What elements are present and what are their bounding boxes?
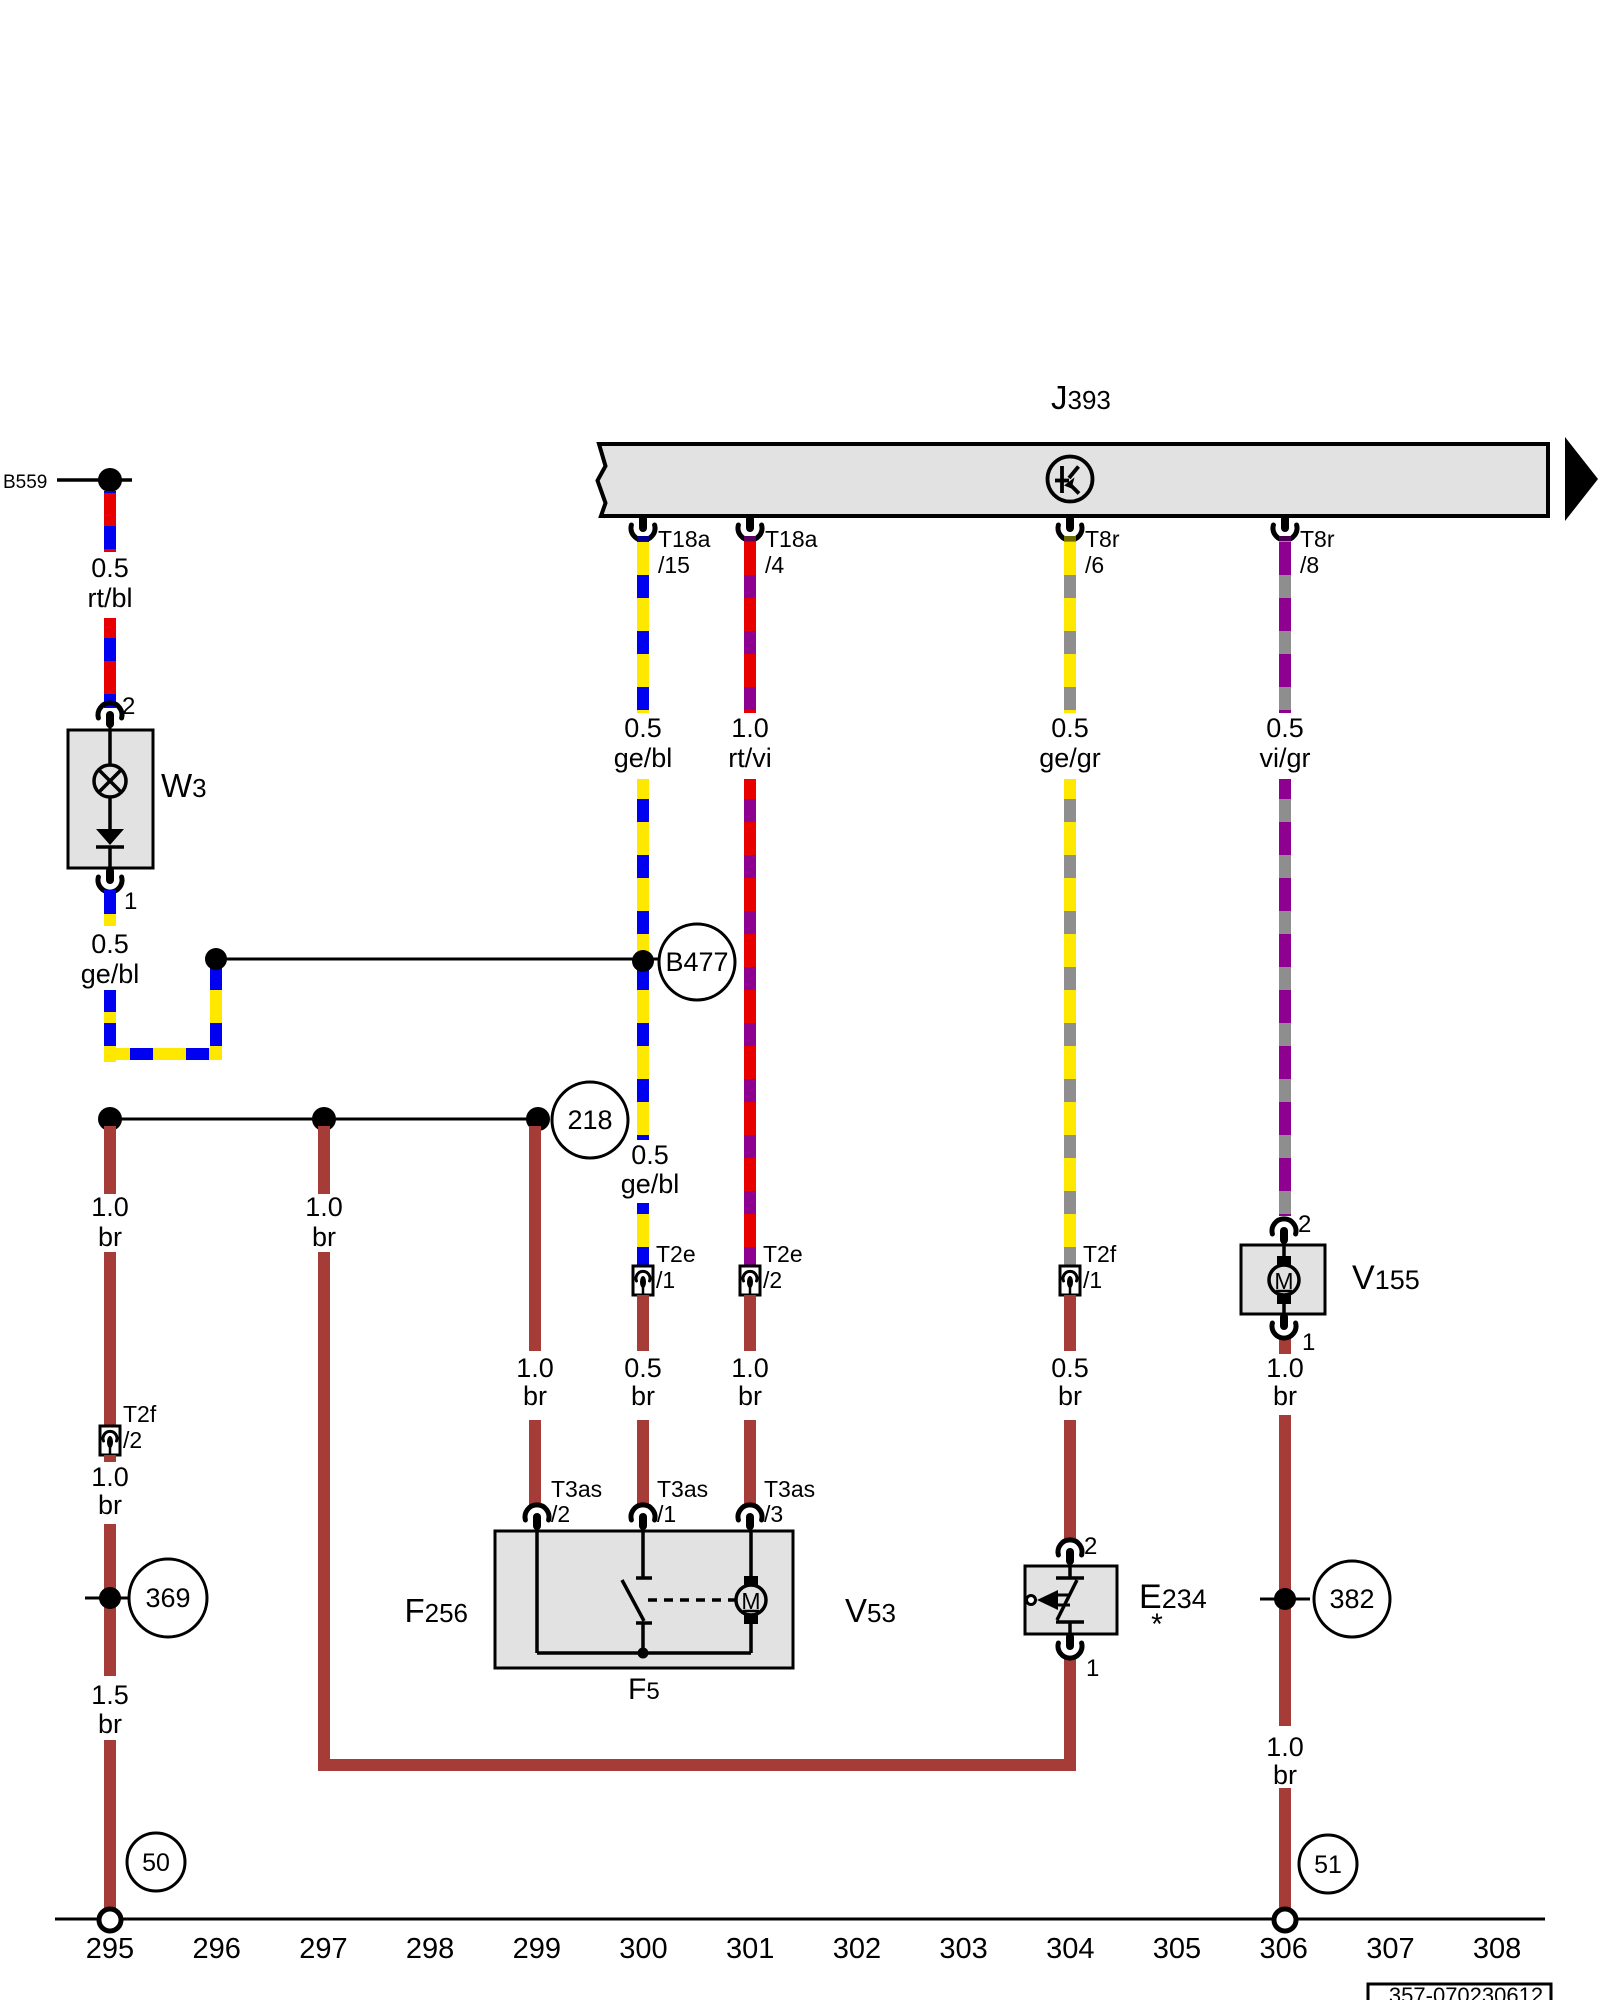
- svg-text:382: 382: [1329, 1584, 1374, 1614]
- svg-text:51: 51: [1314, 1851, 1342, 1879]
- svg-text:298: 298: [406, 1933, 454, 1965]
- svg-text:/2: /2: [763, 1267, 782, 1293]
- svg-text:br: br: [98, 1490, 122, 1520]
- svg-text:357-070230612: 357-070230612: [1389, 1983, 1543, 2000]
- svg-text:1: 1: [1302, 1329, 1315, 1356]
- svg-text:*: *: [1151, 1608, 1163, 1641]
- svg-text:F256: F256: [404, 1592, 468, 1629]
- svg-text:303: 303: [939, 1933, 987, 1965]
- svg-text:br: br: [312, 1222, 336, 1252]
- svg-text:302: 302: [833, 1933, 881, 1965]
- svg-text:br: br: [631, 1381, 655, 1411]
- svg-text:ge/bl: ge/bl: [621, 1169, 680, 1199]
- svg-text:218: 218: [567, 1105, 612, 1135]
- svg-text:T2f: T2f: [123, 1401, 157, 1427]
- svg-text:J393: J393: [1051, 379, 1111, 416]
- svg-text:1.0: 1.0: [516, 1353, 554, 1383]
- svg-text:T8r: T8r: [1085, 526, 1120, 552]
- svg-text:F5: F5: [628, 1673, 660, 1706]
- svg-text:306: 306: [1260, 1933, 1308, 1965]
- svg-text:br: br: [98, 1222, 122, 1252]
- svg-text:1.0: 1.0: [305, 1192, 343, 1222]
- svg-text:0.5: 0.5: [1051, 713, 1089, 743]
- svg-text:T3as: T3as: [764, 1476, 815, 1502]
- svg-text:vi/gr: vi/gr: [1259, 743, 1310, 773]
- svg-text:300: 300: [619, 1933, 667, 1965]
- svg-text:E234: E234: [1139, 1578, 1207, 1616]
- svg-text:br: br: [98, 1709, 122, 1739]
- svg-text:0.5: 0.5: [1266, 713, 1304, 743]
- svg-text:B559: B559: [3, 472, 47, 493]
- svg-text:rt/bl: rt/bl: [87, 583, 132, 613]
- svg-text:1.0: 1.0: [91, 1462, 129, 1492]
- svg-text:T18a: T18a: [658, 526, 711, 552]
- svg-text:1.0: 1.0: [731, 713, 769, 743]
- svg-text:0.5: 0.5: [624, 1353, 662, 1383]
- svg-text:ge/bl: ge/bl: [81, 959, 140, 989]
- svg-text:br: br: [1273, 1381, 1297, 1411]
- svg-text:299: 299: [513, 1933, 561, 1965]
- svg-text:369: 369: [145, 1583, 190, 1613]
- svg-text:/4: /4: [765, 552, 784, 578]
- svg-text:0.5: 0.5: [91, 929, 129, 959]
- svg-text:301: 301: [726, 1933, 774, 1965]
- svg-text:50: 50: [142, 1849, 170, 1877]
- svg-text:V53: V53: [845, 1592, 896, 1629]
- svg-text:304: 304: [1046, 1933, 1094, 1965]
- svg-text:T18a: T18a: [765, 526, 818, 552]
- svg-text:ge/gr: ge/gr: [1039, 743, 1101, 773]
- svg-text:ge/bl: ge/bl: [614, 743, 673, 773]
- svg-text:0.5: 0.5: [91, 553, 129, 583]
- svg-text:0.5: 0.5: [1051, 1353, 1089, 1383]
- svg-text:br: br: [1058, 1381, 1082, 1411]
- svg-text:br: br: [1273, 1760, 1297, 1790]
- svg-text:V155: V155: [1352, 1259, 1420, 1297]
- svg-text:/2: /2: [123, 1427, 142, 1453]
- svg-text:1.0: 1.0: [1266, 1732, 1304, 1762]
- svg-text:/15: /15: [658, 552, 690, 578]
- svg-text:1.5: 1.5: [91, 1680, 129, 1710]
- svg-text:1.0: 1.0: [1266, 1353, 1304, 1383]
- svg-text:2: 2: [1298, 1211, 1311, 1238]
- svg-text:T8r: T8r: [1300, 526, 1335, 552]
- svg-text:br: br: [738, 1381, 762, 1411]
- svg-text:1: 1: [1086, 1655, 1099, 1682]
- svg-text:1.0: 1.0: [91, 1192, 129, 1222]
- svg-text:0.5: 0.5: [624, 713, 662, 743]
- svg-text:T2e: T2e: [656, 1241, 696, 1267]
- svg-text:297: 297: [299, 1933, 347, 1965]
- svg-text:T2e: T2e: [763, 1241, 803, 1267]
- svg-text:295: 295: [86, 1933, 134, 1965]
- svg-text:br: br: [523, 1381, 547, 1411]
- svg-text:/1: /1: [1083, 1267, 1102, 1293]
- svg-text:T2f: T2f: [1083, 1241, 1117, 1267]
- svg-text:B477: B477: [665, 947, 728, 977]
- svg-text:/8: /8: [1300, 552, 1319, 578]
- svg-text:W3: W3: [161, 767, 207, 804]
- svg-text:/1: /1: [656, 1267, 675, 1293]
- svg-text:0.5: 0.5: [631, 1140, 669, 1170]
- svg-text:296: 296: [193, 1933, 241, 1965]
- svg-text:307: 307: [1366, 1933, 1414, 1965]
- svg-text:305: 305: [1153, 1933, 1201, 1965]
- svg-text:2: 2: [122, 693, 135, 720]
- svg-text:2: 2: [1084, 1533, 1097, 1560]
- svg-text:T3as: T3as: [657, 1476, 708, 1502]
- svg-text:/6: /6: [1085, 552, 1104, 578]
- svg-text:1.0: 1.0: [731, 1353, 769, 1383]
- svg-text:rt/vi: rt/vi: [728, 743, 772, 773]
- svg-text:T3as: T3as: [551, 1476, 602, 1502]
- svg-text:/3: /3: [764, 1501, 783, 1527]
- svg-text:308: 308: [1473, 1933, 1521, 1965]
- svg-text:1: 1: [124, 888, 137, 915]
- svg-text:/2: /2: [551, 1501, 570, 1527]
- svg-text:/1: /1: [657, 1501, 676, 1527]
